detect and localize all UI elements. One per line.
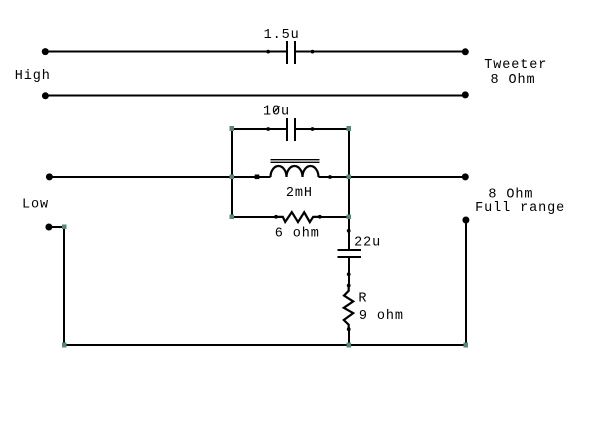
svg-text:22u: 22u	[354, 236, 381, 251]
grip handle top-right of parallel network	[346, 126, 351, 131]
grip handle middle-left junction	[229, 175, 234, 180]
grip handle middle-right junction	[346, 175, 351, 180]
wire left vertical of parallel network	[231, 128, 233, 218]
svg-text:6 ohm: 6 ohm	[275, 227, 320, 242]
grip handle at Low lead corner	[62, 225, 67, 230]
svg-text:9 ohm: 9 ohm	[359, 309, 404, 324]
grip handle bottom-right rail corner	[464, 343, 469, 348]
svg-text:Tweeter: Tweeter	[484, 58, 547, 73]
wire bottom branch of parallel network (left of R 6ohm)	[231, 216, 283, 218]
svg-text:2mH: 2mH	[286, 186, 313, 201]
label 10u zero slash	[274, 106, 280, 112]
wire between C 22u and R 9ohm	[348, 274, 350, 285]
svg-text:R: R	[358, 292, 367, 307]
node High+ input terminal	[42, 48, 49, 55]
wire middle (Low +, right segment)	[319, 176, 466, 178]
svg-text:1.5u: 1.5u	[264, 28, 300, 43]
wire top branch of parallel network (left of C 10u)	[231, 128, 286, 130]
wire bottom branch of parallel network (right of R 6ohm)	[313, 216, 350, 218]
wire top branch of parallel network (right of C 10u)	[296, 128, 350, 130]
grip handle bottom-left of parallel network	[229, 215, 234, 220]
grip handle top-left of parallel network	[229, 126, 234, 131]
node Tweeter+ terminal	[462, 48, 469, 55]
wire R bottom to bottom rail	[348, 329, 350, 346]
wire right vertical of parallel network	[348, 128, 350, 231]
wire full-range return vertical	[465, 220, 467, 346]
wire Low vertical down	[63, 226, 65, 346]
node Tweeter- terminal	[462, 91, 469, 98]
grip handle at R bottom junction	[346, 343, 351, 348]
grip handle bottom-right of parallel network	[346, 215, 351, 220]
node Low input terminal	[45, 224, 52, 231]
node Low+ input terminal	[46, 173, 53, 180]
grip handle bottom-left rail corner	[62, 343, 67, 348]
resistor R2 9 ohm	[344, 284, 353, 332]
wire second (High return)	[45, 95, 466, 97]
capacitor C1 1.5u	[266, 41, 314, 64]
node High- input terminal	[42, 92, 49, 99]
svg-text:Low: Low	[22, 198, 49, 213]
resistor R1 6 ohm	[274, 212, 322, 222]
node Full-range- terminal	[462, 217, 469, 224]
wire bottom rail	[64, 344, 466, 346]
svg-text:High: High	[15, 69, 51, 84]
wire top (High +, right segment from C 1.5u)	[296, 51, 466, 53]
wire top (High +, left segment to C 1.5u)	[45, 51, 286, 53]
svg-text:Full range: Full range	[475, 201, 565, 216]
svg-text:10u: 10u	[263, 104, 290, 119]
svg-text:8 Ohm: 8 Ohm	[491, 73, 536, 88]
capacitor C3 22u	[338, 229, 362, 276]
node Full-range+ terminal	[462, 173, 469, 180]
wire middle (Low +, left segment)	[49, 176, 271, 178]
inductor L1 2mH	[255, 160, 332, 179]
capacitor C2 10u	[266, 118, 314, 141]
wire Low lead	[49, 226, 64, 228]
